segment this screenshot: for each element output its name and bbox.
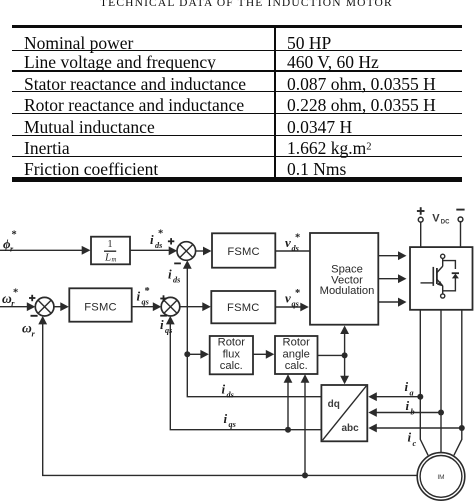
phase a line down	[420, 310, 428, 456]
svg-text:ds: ds	[155, 241, 162, 250]
wire dot to flux calc	[187, 353, 202, 355]
wire sum3 to FSMC2	[179, 306, 204, 308]
wire omega_r* input	[0, 306, 29, 308]
arrowhead into FSMC-left	[60, 302, 69, 311]
terminal - circle	[458, 217, 463, 222]
svg-text:DC: DC	[441, 219, 450, 225]
svg-text:IM: IM	[437, 474, 444, 481]
IGBT emitter diagonal	[437, 280, 443, 287]
table text col 2	[287, 35, 331, 53]
svg-text:1: 1	[107, 239, 112, 250]
node dot on iqs line	[285, 427, 291, 433]
svg-text:c: c	[413, 439, 417, 448]
wire theta from angle calc	[318, 354, 345, 356]
motor outer circle	[417, 453, 465, 501]
svg-text:i: i	[222, 382, 226, 397]
svg-text:flux: flux	[223, 348, 241, 360]
wire SVM out3	[378, 301, 399, 303]
svg-text:i: i	[406, 398, 410, 413]
arrowhead v_qs into SVM	[300, 303, 309, 312]
wire FSMC-left to sum3	[132, 306, 155, 308]
wire speed feedback	[43, 317, 418, 475]
svg-text:ds: ds	[173, 276, 180, 285]
IGBT collector wire	[442, 258, 444, 266]
svg-text:FSMC: FSMC	[227, 246, 260, 258]
node dot ia	[417, 394, 423, 400]
wire ic to dq/abc	[376, 427, 462, 429]
svg-text:i: i	[150, 232, 154, 247]
wire 1/Lm to sum1	[130, 249, 171, 251]
svg-text:qs: qs	[165, 326, 172, 335]
wire speed dot up to angle calc	[304, 376, 306, 476]
block FSMC2	[211, 291, 275, 323]
wire SVM out1	[378, 255, 399, 257]
node dot on speed line	[302, 472, 308, 478]
svg-text:v: v	[285, 291, 291, 306]
block FSMC left (speed controller)	[69, 288, 131, 321]
svg-text:i: i	[137, 289, 141, 304]
svg-text:i: i	[408, 430, 412, 445]
wire phi_r* input	[0, 249, 84, 251]
wire v_qs* to SVM	[275, 306, 301, 308]
fraction bar	[104, 250, 116, 252]
svg-text:*: *	[295, 233, 300, 244]
node dot on ids vertical	[184, 351, 190, 357]
phase c line down	[454, 310, 462, 456]
svg-text:v: v	[285, 235, 291, 250]
phase b line down	[440, 310, 442, 453]
svg-text:i: i	[224, 411, 228, 426]
table rules	[12, 25, 462, 28]
arrowhead into sum1	[169, 246, 178, 255]
summing junction sum2	[35, 297, 54, 316]
svg-text:ds: ds	[292, 244, 299, 253]
arrowhead into sum2	[27, 302, 36, 311]
summing junction sum1	[177, 242, 196, 261]
svg-text:b: b	[411, 408, 415, 417]
wire flux calc to angle calc	[253, 353, 268, 355]
IGBT bottom node	[441, 294, 445, 298]
svg-text:i: i	[168, 267, 172, 282]
IGBT gate lead	[421, 282, 434, 284]
wire sum1 to FSMC1	[195, 250, 204, 252]
IGBT top node	[441, 254, 445, 258]
table title (cut off at top)	[100, 0, 393, 9]
svg-text:qs: qs	[229, 420, 236, 429]
svg-text:calc.: calc.	[285, 360, 308, 372]
wire theta down to dq/abc	[344, 355, 346, 377]
svg-text:qs: qs	[142, 298, 149, 307]
node dot ic	[459, 425, 465, 431]
IGBT collector diagonal	[437, 266, 443, 273]
wire theta up to SVM	[344, 332, 346, 355]
motor inner circle	[420, 456, 462, 498]
svg-text:Rotor: Rotor	[283, 337, 311, 349]
wire ib to dq/abc	[376, 412, 441, 414]
wire - terminal to inverter	[460, 222, 462, 247]
arrowhead into FSMC1	[203, 247, 212, 256]
plus sign inverter	[417, 210, 425, 212]
arrowhead into FSMC2	[202, 302, 211, 311]
svg-text:V: V	[432, 213, 440, 225]
minus sum3	[160, 315, 167, 317]
arrowhead iqs into sum3	[166, 316, 175, 325]
svg-text:r: r	[10, 245, 14, 254]
wire + terminal to inverter	[420, 222, 422, 247]
table text col 1	[24, 35, 133, 53]
svg-text:*: *	[145, 286, 150, 297]
wire ids feedback horizontal	[187, 262, 321, 397]
svg-text:i: i	[160, 317, 164, 332]
wire iqs feedback horizontal	[170, 317, 321, 430]
dq/abc diagonal	[323, 386, 367, 440]
minus sum2	[31, 315, 38, 317]
minus sum1	[174, 262, 181, 264]
vertical divider	[274, 25, 277, 181]
text layer	[84, 213, 450, 482]
terminal + circle	[418, 217, 423, 222]
svg-text:ω: ω	[22, 320, 32, 335]
arrowhead into 1/Lm	[82, 246, 91, 255]
plus sum2	[29, 297, 35, 299]
diode D	[452, 274, 459, 279]
IGBT emitter arrow	[437, 281, 443, 287]
node dot ib	[438, 410, 444, 416]
svg-text:angle: angle	[283, 348, 310, 360]
IGBT gate bar	[432, 267, 434, 286]
svg-text:Modulation: Modulation	[320, 285, 375, 297]
minus sign inverter	[456, 209, 464, 211]
arrowhead speed into sum2	[38, 316, 47, 325]
summing junction sum3	[161, 297, 180, 316]
wire v_ds* to SVM	[275, 250, 310, 252]
diode branch bottom	[443, 278, 456, 291]
block rotor angle calc	[275, 336, 318, 374]
block inverter	[410, 247, 473, 310]
plus sum3	[160, 298, 166, 300]
svg-text:FSMC: FSMC	[84, 301, 117, 313]
arrowhead into sum3	[153, 302, 162, 311]
svg-text:qs: qs	[292, 300, 299, 309]
svg-text:FSMC: FSMC	[227, 302, 260, 314]
svg-text:Rotor: Rotor	[218, 337, 246, 349]
plus sum1	[168, 240, 174, 242]
wire SVM out2	[378, 278, 399, 280]
block FSMC1	[212, 233, 275, 267]
block 1/Lm	[91, 237, 130, 265]
node dot theta	[342, 352, 348, 358]
block rotor flux calc	[210, 336, 253, 374]
svg-text:*: *	[295, 288, 300, 299]
svg-text:m: m	[112, 257, 117, 264]
block dq/abc	[321, 385, 367, 441]
wire iqs dot up to angle calc	[287, 376, 289, 430]
math labels (italic serif)	[2, 229, 417, 449]
svg-text:r: r	[32, 329, 36, 338]
svg-text:*: *	[13, 288, 18, 299]
svg-text:a: a	[410, 389, 414, 398]
svg-text:calc.: calc.	[220, 360, 243, 372]
svg-text:i: i	[405, 379, 409, 394]
svg-text:dq: dq	[328, 399, 340, 410]
IGBT body bar	[436, 268, 438, 284]
diode branch top	[443, 261, 456, 269]
svg-text:*: *	[158, 229, 163, 240]
svg-text:*: *	[12, 230, 17, 241]
arrowhead ids into sum1	[183, 260, 192, 269]
svg-text:L: L	[104, 252, 111, 264]
wire ia to dq/abc	[376, 396, 420, 398]
svg-text:ds: ds	[227, 391, 234, 400]
wire sum2 to FSMC-left	[54, 306, 63, 308]
block SVM	[310, 233, 378, 325]
svg-text:abc: abc	[342, 423, 360, 434]
IGBT emitter wire	[442, 286, 444, 294]
